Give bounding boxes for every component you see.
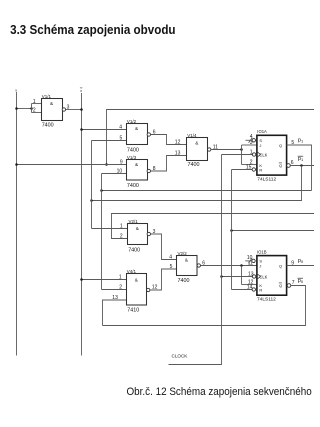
svg-text:Q: Q — [279, 143, 282, 148]
junction dot on J/K tie — [240, 148, 243, 151]
wire clock vertical and stub — [169, 155, 222, 365]
output bubble V1/4 — [208, 148, 211, 151]
svg-text:V1/4: V1/4 — [187, 133, 197, 138]
wire V1/1 pin2 — [32, 112, 42, 114]
wire IO1A Q output P1 — [287, 145, 312, 191]
CLK bubble IO1A — [252, 153, 255, 156]
junction dot V1/1 output on rail x-bar — [80, 108, 83, 111]
wire P1 vertical distribution — [101, 174, 103, 290]
wire IO1B CLK pin from clock vertical — [222, 276, 253, 278]
svg-text:3.3 Schéma zapojenia obvodu: 3.3 Schéma zapojenia obvodu — [10, 22, 175, 37]
svg-text:V1/2: V1/2 — [127, 119, 137, 124]
node x-bar rail label — [80, 88, 83, 93]
wire V1/1 output to rail x-bar — [66, 109, 82, 111]
svg-text:14: 14 — [247, 285, 253, 291]
wire IO1A R pin — [232, 169, 253, 171]
svg-text:&: & — [50, 101, 53, 106]
wire P-bar-1 feedback long horizontal — [92, 166, 302, 201]
wire V2/2 output to IO1B J — [201, 265, 257, 267]
svg-text:J: J — [259, 264, 261, 269]
svg-text:IO1B: IO1B — [257, 250, 267, 255]
svg-text:7400: 7400 — [188, 162, 200, 168]
svg-text:&: & — [136, 226, 139, 231]
wire IO1A Q-bar output P-bar-1 to right edge — [290, 165, 314, 167]
wire V1/2 pin4 from rail x-bar — [82, 129, 127, 131]
svg-text:IO1A: IO1A — [257, 129, 267, 134]
output bubble V1/2 — [147, 133, 150, 136]
junction dot pin4 on rail x-bar — [80, 128, 83, 131]
wire V1/2 pin5 from P-bar-1 vertical — [92, 140, 127, 142]
svg-text:7400: 7400 — [127, 148, 139, 154]
output bubble V1/1 — [62, 108, 65, 111]
svg-text:74LS112: 74LS112 — [257, 296, 276, 302]
svg-text:1: 1 — [250, 150, 253, 156]
svg-text:4: 4 — [169, 255, 172, 261]
svg-text:&: & — [135, 126, 138, 131]
svg-text:10: 10 — [247, 255, 253, 261]
wire V4/1 pin1 from rail x-bar — [82, 279, 127, 281]
svg-text:p0: p0 — [298, 278, 304, 284]
svg-text:1: 1 — [119, 275, 122, 281]
wire IO1B J/K tie vertical — [241, 266, 243, 285]
svg-text:Q: Q — [279, 283, 282, 288]
wire V1/3 output to V1/4 pin13 — [151, 156, 187, 172]
svg-text:R: R — [259, 288, 262, 293]
wire IO1A J pin — [242, 144, 257, 146]
gate V4/1 body 7410 — [127, 269, 147, 314]
svg-text:x: x — [80, 89, 82, 93]
junction dot clock to IO1B CLK — [220, 275, 223, 278]
gate V1/2 body — [127, 119, 148, 154]
svg-text:4: 4 — [250, 134, 253, 140]
svg-text:V1/1: V1/1 — [42, 94, 52, 99]
svg-text:6: 6 — [291, 160, 294, 166]
wire V2/1 pin1 — [92, 228, 128, 230]
wire V2/1 pin2 net to right edge — [112, 214, 315, 239]
svg-text:12: 12 — [175, 140, 181, 146]
svg-text:13: 13 — [112, 295, 118, 301]
IO1B S pin stub with no-connect slash — [245, 255, 255, 264]
wire x net to right edge — [107, 110, 315, 165]
wire IO1B Q-bar feedback P-bar-0 — [103, 286, 306, 326]
wire P1 feedback long horizontal — [102, 190, 312, 192]
svg-text:Q: Q — [279, 264, 282, 269]
svg-text:p1: p1 — [298, 156, 304, 162]
svg-text:4: 4 — [119, 125, 122, 131]
svg-text:7410: 7410 — [127, 307, 139, 313]
junction dot P1 feedback — [100, 189, 103, 192]
svg-text:R: R — [259, 168, 262, 173]
flip-flop IO1B body 74LS112 — [257, 250, 287, 303]
wire rail x vertical — [16, 92, 18, 356]
node label P-bar-1 — [298, 156, 304, 162]
wire R net vertical IO1A to IO1B — [231, 170, 233, 290]
svg-text:7400: 7400 — [178, 278, 190, 284]
R bubble IO1A — [252, 168, 255, 171]
wire V1/4 output to IO1A J/K tie — [211, 149, 242, 151]
wire V1/1 pin1 — [32, 103, 42, 105]
output bubble V4/1 — [147, 288, 150, 291]
junction dot IO1B J/K tie — [240, 264, 243, 267]
svg-text:74LS112: 74LS112 — [257, 176, 276, 182]
wire V4/1 output to V2/2 pin5 — [150, 269, 177, 290]
output bubble V2/2 — [197, 264, 200, 267]
gate V2/2 body — [177, 251, 198, 284]
svg-text:10: 10 — [117, 169, 123, 175]
svg-text:9: 9 — [291, 260, 294, 266]
svg-text:V2/2: V2/2 — [178, 251, 188, 256]
junction dot pin9 on rail x — [15, 163, 18, 166]
svg-text:1: 1 — [33, 99, 36, 105]
svg-text:&: & — [185, 258, 188, 263]
wire V4/1 pin13 from P-bar-0 vertical — [103, 300, 127, 326]
wire IO1A K pin — [242, 164, 257, 166]
output bubble V1/3 — [147, 169, 150, 172]
svg-text:&: & — [195, 140, 198, 145]
output bubble V2/1 — [147, 232, 150, 235]
CLK bubble IO1B — [252, 275, 255, 278]
svg-text:13: 13 — [248, 272, 254, 278]
svg-text:1: 1 — [120, 224, 123, 230]
svg-text:V4/1: V4/1 — [127, 269, 137, 274]
svg-text:x: x — [15, 88, 17, 92]
svg-text:&: & — [135, 278, 138, 283]
junction dot x net on pin9 wire — [105, 163, 108, 166]
wire IO1B K pin — [242, 284, 257, 286]
junction dot V4/1 pin1 on rail x-bar — [80, 278, 83, 281]
svg-text:7400: 7400 — [128, 248, 140, 254]
svg-text:13: 13 — [175, 151, 181, 157]
svg-text:V1/3: V1/3 — [127, 155, 137, 160]
gate V1/4 body — [187, 133, 208, 168]
output bubble IO1A Q-bar — [287, 164, 291, 168]
flip-flop IO1A body 74LS112 — [257, 129, 287, 182]
wire R net branch to right edge — [232, 230, 315, 232]
gate V2/1 body — [128, 219, 148, 254]
junction dot on Q-bar wire — [300, 164, 303, 167]
wire P-bar-1 vertical distribution — [91, 141, 93, 229]
svg-text:&: & — [135, 162, 138, 167]
svg-text:5: 5 — [170, 264, 173, 270]
R bubble IO1B — [252, 288, 255, 291]
junction dot rail x / V1 input — [15, 107, 18, 110]
svg-text:9: 9 — [120, 160, 123, 166]
svg-text:2: 2 — [33, 108, 36, 114]
svg-text:p0: p0 — [298, 258, 304, 264]
svg-text:V2/1: V2/1 — [129, 219, 139, 224]
svg-text:7400: 7400 — [42, 123, 54, 129]
wire V4/1 pin2 from P1 vertical — [102, 289, 127, 291]
wire V1/3 pin10 from P1 vertical — [102, 173, 127, 175]
junction dot P-bar-1 feedback — [90, 199, 93, 202]
wire V1/1 input feed from rail x — [17, 108, 32, 110]
wire rail x-bar vertical — [81, 93, 83, 356]
output bubble IO1B Q-bar — [287, 284, 291, 288]
svg-text:CLOCK: CLOCK — [172, 353, 189, 358]
svg-text:Obr.č. 12 Schéma zapojenia sek: Obr.č. 12 Schéma zapojenia sekvenčného — [126, 387, 311, 399]
gate V1/1 body — [42, 94, 63, 129]
IO1A S pin stub with no-connect slash — [246, 134, 256, 143]
svg-text:2: 2 — [119, 285, 122, 291]
svg-text:J: J — [259, 143, 261, 148]
wire IO1A CLK pin from clock vertical — [222, 154, 253, 156]
junction dot V1 input stub — [30, 107, 33, 110]
wire IO1A J/K tie vertical — [241, 145, 243, 165]
wire V2/1 output to V2/2 pin4 — [151, 234, 177, 260]
svg-text:Q: Q — [279, 163, 282, 168]
wire V1/3 pin9 from rail x — [17, 164, 127, 166]
svg-text:5: 5 — [120, 136, 123, 142]
gate V1/3 body — [127, 155, 148, 189]
wire V1/1 input stub vertical — [31, 104, 33, 113]
junction dot R net branch — [230, 229, 233, 232]
wire IO1B R pin — [232, 289, 253, 291]
node label P-bar-0 — [298, 278, 304, 284]
wire IO1B Q output P0 to right edge — [287, 265, 314, 267]
svg-text:2: 2 — [120, 234, 123, 240]
svg-text:15: 15 — [246, 165, 252, 171]
svg-text:7400: 7400 — [127, 183, 139, 189]
svg-text:5: 5 — [291, 140, 294, 146]
wire V1/2 output to V1/4 pin12 — [151, 135, 187, 145]
svg-text:p1: p1 — [298, 137, 304, 143]
node x rail label — [15, 88, 17, 92]
